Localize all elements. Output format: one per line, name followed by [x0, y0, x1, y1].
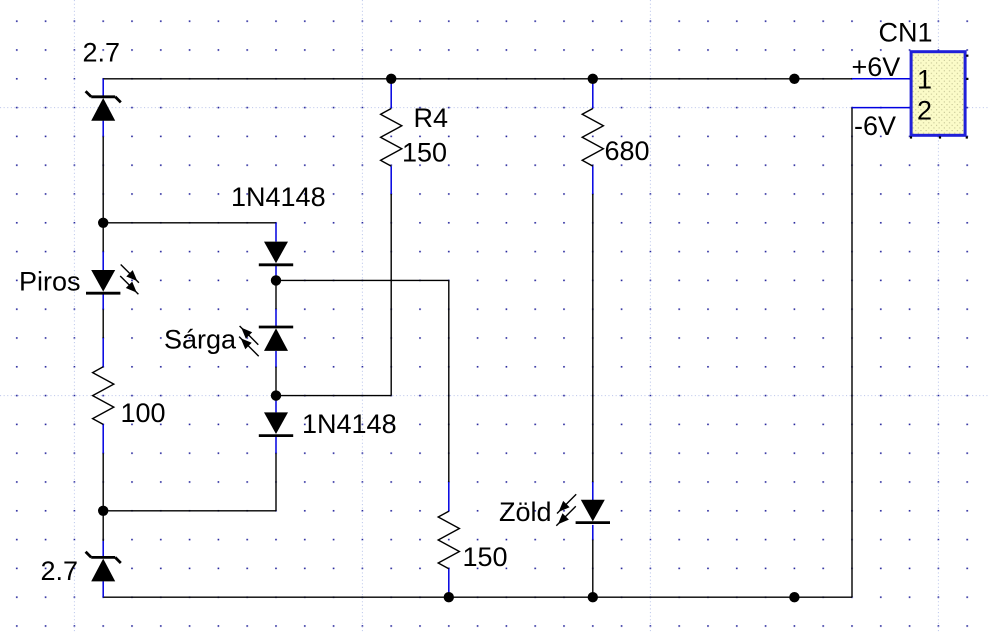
- node rail right: [789, 74, 799, 84]
- resistor 680 pins: [592, 79, 594, 109]
- resistor R4: [381, 109, 402, 167]
- svg-text:Sárga: Sárga: [164, 325, 237, 355]
- wire 150 branch down: [448, 280, 450, 482]
- svg-text:R4: R4: [414, 103, 449, 133]
- wire R4 bottom down: [390, 194, 392, 396]
- LED Zold: [556, 494, 610, 526]
- wire middle branch seg3: [275, 453, 277, 511]
- node Zold bottom: [588, 592, 598, 602]
- LED Sarga pins: [275, 309, 277, 326]
- resistor R4 pins: [390, 79, 392, 109]
- diode D1 1N4148: [259, 242, 293, 265]
- zener D top pins: [102, 79, 104, 96]
- node 680 top: [588, 74, 598, 84]
- LED Piros pins: [102, 252, 104, 271]
- svg-text:1: 1: [917, 65, 932, 95]
- wire node bottom-left to middle branch: [103, 510, 276, 512]
- wire right vertical -6V: [851, 108, 853, 598]
- diode D2 1N4148: [259, 412, 293, 435]
- connector CN1: [910, 52, 969, 139]
- node B: [271, 275, 281, 285]
- node rail bottom right: [789, 592, 799, 602]
- wire bottom rail -6V: [103, 596, 852, 598]
- wire 680 branch down: [592, 194, 594, 482]
- resistor 100: [93, 367, 114, 425]
- wire node A to diode branch: [103, 222, 276, 224]
- wire R4 to node C: [276, 395, 391, 397]
- wire middle branch seg2: [275, 367, 277, 396]
- svg-text:150: 150: [463, 542, 508, 572]
- wire middle branch seg1: [275, 280, 277, 309]
- svg-text:+6V: +6V: [852, 52, 901, 82]
- zener diode 2.7 top: [86, 91, 121, 121]
- LED Zold pins: [592, 482, 594, 501]
- svg-text:-6V: -6V: [854, 111, 896, 141]
- node 150 bottom: [444, 592, 454, 602]
- resistor 680: [582, 109, 603, 167]
- LED Piros: [86, 265, 139, 295]
- svg-text:Zöld: Zöld: [499, 497, 552, 527]
- resistor 150 bottom: [438, 511, 459, 569]
- wire top rail +6V: [103, 78, 852, 80]
- wire left branch mid: [102, 309, 104, 338]
- zener diode 2.7 bottom: [86, 552, 121, 582]
- svg-text:2.7: 2.7: [83, 38, 121, 68]
- svg-text:CN1: CN1: [879, 18, 933, 48]
- svg-text:Piros: Piros: [19, 267, 81, 297]
- wire node B to 150 branch: [276, 279, 449, 281]
- wire Zold to bottom rail: [592, 540, 594, 598]
- node bottom-left: [98, 506, 108, 516]
- wire left branch upper: [102, 136, 104, 251]
- connector pin 2 lead: [852, 107, 910, 109]
- node A: [98, 218, 108, 228]
- diode D2 pins: [275, 396, 277, 413]
- svg-text:2.7: 2.7: [41, 556, 79, 586]
- connector pin 1 lead: [852, 78, 910, 80]
- svg-text:680: 680: [605, 136, 650, 166]
- diode D1 pins: [275, 223, 277, 242]
- resistor 150 pins: [448, 482, 450, 511]
- node R4 top: [386, 74, 396, 84]
- svg-text:2: 2: [917, 96, 932, 126]
- resistor 100 pins: [102, 338, 104, 367]
- LED Sarga: [239, 326, 293, 356]
- wire left branch lower: [102, 453, 104, 541]
- zener D bottom pins: [102, 541, 104, 557]
- svg-text:100: 100: [121, 398, 166, 428]
- svg-text:1N4148: 1N4148: [231, 182, 326, 212]
- svg-text:1N4148: 1N4148: [302, 409, 397, 439]
- svg-text:150: 150: [402, 138, 447, 168]
- node C: [271, 390, 281, 400]
